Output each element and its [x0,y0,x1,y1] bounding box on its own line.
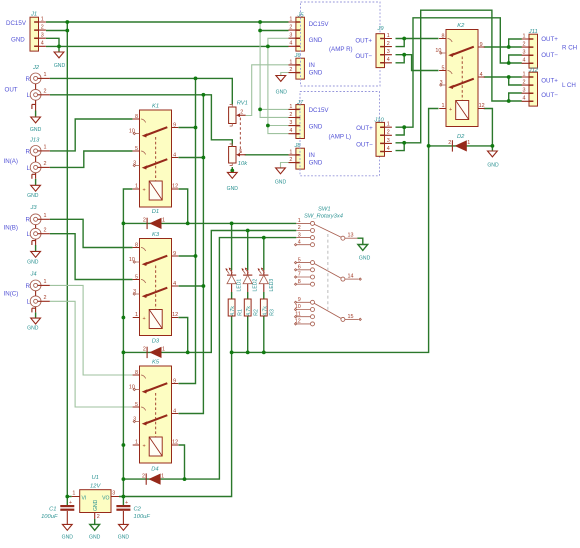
resistor R2 4.7k [244,299,251,316]
node K2.1 D2 junction [427,144,431,148]
connector J4 IN(C) R jack [30,280,50,291]
resistor R1 4.7k [228,299,235,316]
svg-text:12: 12 [295,319,301,325]
svg-text:2: 2 [44,295,47,301]
svg-text:GND: GND [93,499,99,511]
wire U1 pin2 to ground [94,519,96,524]
svg-text:J9: J9 [377,26,385,32]
wire R1 to +12V rail [231,316,233,352]
svg-text:K5: K5 [152,360,160,366]
node J12.1 junction [507,75,511,79]
svg-text:1: 1 [44,72,47,78]
node K3.4 junction [202,284,206,288]
node D1 cathode bus junction [122,222,126,226]
svg-text:SW_Rotary3x4: SW_Rotary3x4 [304,214,343,220]
connector J1 [30,16,46,51]
svg-text:D4: D4 [151,466,158,472]
svg-text:6: 6 [298,265,301,271]
svg-text:GND: GND [227,186,239,192]
wire +15V right vertical to J7.2 [260,22,288,117]
ground GND right of D2 [488,151,498,157]
wire J9 OUT- to K2.5 [396,55,439,71]
ground GND below J1 [54,52,64,58]
connector J4 IN(C) L jack [30,296,50,307]
wire U1 VI from +15V vertical [67,496,71,498]
node OUT R junction [194,77,198,81]
connector J3 IN(B) R jack [30,214,50,225]
relay K2 [435,30,484,127]
wire K3.12 down to D3 row [179,318,188,353]
svg-text:DC15V: DC15V [6,20,27,27]
svg-text:GND: GND [89,534,101,540]
wire LED2 to R2 [247,284,249,292]
svg-text:R3: R3 [270,309,276,316]
SW1 gang dashed link [327,234,329,310]
node LED1 top junction [230,222,234,226]
wire J4 shield to GND [35,312,37,318]
wire C1 top [66,497,68,506]
wire GND top rail J1.4 to J5.4 [46,45,289,47]
svg-text:OUT−: OUT− [355,53,372,60]
ground GND below OUT jacks [31,117,41,123]
regulator U1 12V [72,475,119,520]
svg-text:LED2: LED2 [253,279,259,292]
svg-text:K3: K3 [152,232,160,238]
wire IN(B) R to K3.8 [50,219,133,247]
wire K2.12 down to D2 row [484,109,493,146]
relay K3 [129,239,178,336]
wire J6.2 to GND [281,73,289,76]
diode D3 [143,347,165,359]
LED LED1 [225,268,236,284]
wire J13 shield to GND [35,179,37,185]
node J9.1 junction [402,37,406,41]
svg-text:GND: GND [54,63,66,69]
wire OUT L to RV1 lower section top [50,95,233,147]
svg-text:R: R [26,76,31,83]
svg-text:10: 10 [295,304,301,310]
connector J12 [522,71,538,106]
svg-text:13: 13 [348,233,354,239]
wire K1.9 to R bus [179,127,196,129]
node J7.1 junction [258,108,262,112]
relay K5 [129,366,178,463]
ground GND below J6 [276,76,286,82]
node K3.9 junction [194,254,198,258]
wire LED1 to R1 [231,284,233,292]
svg-text:1: 1 [44,279,47,285]
switch SW1 rotary [294,206,361,326]
svg-text:7: 7 [298,272,301,278]
SW1 common pin 14 [341,277,345,281]
svg-text:8: 8 [298,279,301,285]
svg-text:U1: U1 [91,475,98,481]
potentiometer RV1 lower section 10k [229,144,246,166]
wire LED3 column top [263,238,265,270]
svg-text:OUT−: OUT− [356,142,373,149]
connector J10 [376,122,392,157]
wire J11.1 tie [509,39,522,47]
svg-text:OUT−: OUT− [541,52,558,59]
svg-text:5: 5 [298,257,301,263]
svg-text:GND: GND [62,534,74,540]
wire J9.4 tie [396,55,405,63]
connector J6 [289,58,305,79]
wire IN(A) L to K1.5 [50,151,133,167]
node J11.2 junction [507,45,511,49]
svg-text:OUT+: OUT+ [541,36,558,43]
svg-text:R1: R1 [237,309,243,316]
wire LED2 column top [247,231,249,271]
SW1 common pin 13 [341,236,345,240]
svg-text:GND: GND [276,90,288,96]
potentiometer RV1 upper section [229,104,246,126]
wire R2 to +12V rail [247,316,249,352]
svg-text:GND: GND [487,163,499,169]
svg-text:IN: IN [309,152,315,159]
node D4 cathode bus junction [122,477,126,481]
wire C2 bottom to ground [122,511,124,524]
svg-text:LED3: LED3 [269,279,275,292]
svg-text:(AMP L): (AMP L) [329,134,352,141]
connector J11 [522,33,538,68]
wire D1 row from +12V bus [123,222,187,224]
node R2 rail junction [246,351,250,355]
wire J1.3 to GND rail and ground [46,38,59,52]
svg-text:GND: GND [309,70,323,77]
node LED3 top junction [262,236,266,240]
svg-text:100uF: 100uF [41,514,58,520]
svg-text:VO: VO [102,495,109,501]
wire IN(B) L to K3.5 [50,234,133,280]
SW1 common pin 15 [341,317,345,321]
SECTION: wires [36,10,522,524]
wire rotary common 13 to GND [357,238,363,244]
svg-text:L: L [27,165,31,172]
svg-text:IN(B): IN(B) [4,225,18,232]
node RV1 bottom gnd junction [230,169,234,173]
node R3 rail junction [262,351,266,355]
node J5.2 junction [258,29,262,33]
wire L channel bus to K5.4 [179,95,204,414]
wire IN(A) R to K1.8 [50,119,133,151]
svg-text:R2: R2 [253,309,259,316]
wire net row A to rotary pin 1 [188,222,297,224]
wire K2.4 to J12.1 [484,76,522,78]
SW1 group3 contacts pins 9-12 [296,302,310,324]
node J12.4 junction [507,99,511,103]
wire D4 row and net row C to rotary pin 3 [123,238,296,480]
svg-text:OUT−: OUT− [541,92,558,99]
node U1 VO junction [122,495,126,499]
diode D2 [448,140,470,152]
LED LED2 [242,268,253,284]
LED LED3 [258,268,269,284]
svg-text:GND: GND [309,37,323,44]
SW1 wiper arm 2 [314,263,341,278]
wire J5.2 stub to +15V right vertical [260,30,288,32]
node K1.9 junction [194,126,198,130]
svg-text:OUT+: OUT+ [356,125,373,132]
wire K2.9 to J11.2 [484,46,522,48]
wire J4 shield link [32,291,36,313]
wire IN(C) R to K5.8 [50,285,133,375]
node D1 anode junction [186,222,190,226]
wire J7.3 stub [268,125,289,127]
svg-text:GND: GND [359,255,371,261]
connector J13 IN(A) R jack [30,146,50,157]
svg-text:LED1: LED1 [237,279,243,292]
wire K1.12 to D1 row [179,189,188,223]
node K1.4 junction [202,156,206,160]
node J1.1 junction [65,20,69,24]
wire K1.4 to L bus [179,157,204,159]
svg-text:1: 1 [44,213,47,219]
wire +15V main vertical to U1 VI [66,22,68,497]
wire J10 OUT+ over K2 to J11.4 [396,18,522,127]
wire RV1 gang dashed link [239,118,241,153]
frame dashed AMP L group box [300,92,380,176]
svg-text:D1: D1 [152,209,159,215]
node R1 rail junction [230,351,234,355]
svg-text:K1: K1 [152,103,159,109]
relay K1 [129,110,178,207]
svg-text:J13: J13 [29,138,40,144]
svg-text:1: 1 [298,218,301,224]
svg-text:R: R [26,283,31,290]
svg-text:R: R [26,217,31,224]
svg-text:14: 14 [348,274,354,280]
resistor R3 4.7k [260,299,267,316]
wire LED1 column top [231,223,233,270]
svg-text:1: 1 [72,491,75,497]
node J10.1 junction [402,125,406,129]
node D4 anode junction [183,477,187,481]
ground GND below J13 [31,185,41,191]
svg-text:OUT: OUT [5,86,18,93]
svg-text:10k: 10k [238,161,248,167]
connector J3 IN(B) L jack [30,228,50,239]
svg-text:2: 2 [298,225,301,231]
wire C1 bottom to ground [66,511,68,524]
svg-text:RV1: RV1 [237,100,248,106]
wire LED3 to R3 [263,284,265,292]
wire J1.2 stub to +15V vertical [46,30,67,32]
svg-text:2: 2 [240,109,243,115]
node K5.1 junction [122,443,126,447]
wire J13 shield link [32,156,36,179]
wire K5.12 down to D4 row [179,445,185,479]
wire J12.2 tie [509,77,522,85]
wire D2 row K2 coil to GND [429,146,493,151]
svg-text:IN(A): IN(A) [4,158,18,165]
wire net row B to rotary pin 2 [188,231,297,353]
ground GND below J4 [31,318,41,324]
wire J10.2 tie [396,127,405,135]
wire K3.9 to R bus [179,255,196,257]
svg-text:L: L [27,231,31,238]
svg-text:K2: K2 [457,23,465,29]
connector J5 [289,16,305,51]
connector J9 [376,33,392,68]
svg-text:2: 2 [97,514,100,520]
node J5.1 junction [258,20,262,24]
svg-text:4.7k: 4.7k [230,306,236,316]
svg-text:GND: GND [118,534,130,540]
wire GND right vertical J5.3 to J7.4 [268,38,289,133]
wire IN(C) L to K5.5 [50,301,133,407]
ground GND below C2 [119,524,129,530]
wire R channel bus to K5.9 [179,78,196,383]
connector J7 [289,104,305,139]
connector J2 OUT R jack [30,73,50,84]
svg-text:5: 5 [239,149,242,155]
node J10.3 junction [402,141,406,145]
ground GND below C1 [62,524,72,530]
svg-text:15: 15 [348,314,354,320]
svg-text:L: L [27,299,31,306]
wire K3.4 to L bus [179,285,204,287]
svg-text:R: R [26,148,31,155]
wire J3 shield link [32,225,36,245]
ground GND below RV1 [227,172,237,178]
ground GND below J3 [31,251,41,257]
svg-text:J1: J1 [30,11,37,17]
SW1 group1 contacts pins 1-4 [296,223,310,244]
wire OUT jack shield to GND [35,111,37,117]
svg-text:D2: D2 [457,134,465,140]
node D3 cathode bus junction [122,351,126,355]
svg-text:C1: C1 [49,507,56,513]
svg-text:GND: GND [27,193,39,199]
wire J3 shield to GND [35,245,37,251]
svg-text:4.7k: 4.7k [262,306,268,316]
svg-text:VI: VI [82,495,87,501]
svg-text:L: L [27,92,31,99]
svg-text:OUT+: OUT+ [541,78,558,85]
svg-text:GND: GND [27,260,39,266]
wire U1 VO feed to LED rail [119,352,232,496]
svg-text:J3: J3 [30,205,38,211]
svg-text:4.7k: 4.7k [246,306,252,316]
svg-text:2: 2 [44,161,47,167]
svg-text:GND: GND [11,36,25,43]
node K2.12 D2 junction [491,144,495,148]
capacitor C2 100uF [116,500,130,511]
wire RV1 wiper to J6.1 [246,65,289,116]
ground GND below J8 [276,168,286,174]
node U1 VI junction [65,495,69,499]
wire OUT jack shield link [32,84,36,111]
svg-text:IN: IN [309,62,315,69]
svg-text:D3: D3 [152,339,160,345]
node J9.3 junction [402,53,406,57]
svg-text:GND: GND [309,124,323,131]
svg-text:(AMP R): (AMP R) [329,46,353,53]
SW1 wiper arm 3 [314,303,341,318]
svg-text:J12: J12 [528,67,539,73]
node J11.4 junction [507,61,511,65]
svg-text:2: 2 [44,88,47,94]
SECTION: junctions [57,20,511,498]
svg-text:J10: J10 [373,117,384,123]
svg-text:GND: GND [309,160,323,167]
node J1.2 junction [65,29,69,33]
wire J9.2 tie [396,39,405,47]
wire RV1 lower bottom to GND [231,167,233,172]
wire LED +12V rail to K2.1 [232,109,439,353]
svg-text:3: 3 [298,232,301,238]
SW1 group2 contacts pins 5-8 [296,263,310,285]
node J7.3 junction [266,124,270,128]
svg-text:DC15V: DC15V [309,107,330,114]
svg-text:2: 2 [44,227,47,233]
svg-text:L CH: L CH [562,82,576,89]
wire D3 row from +12V bus [123,351,187,353]
svg-text:100uF: 100uF [134,514,151,520]
wire J7.1 stub [260,108,288,110]
wire J10 OUT- over K2 to J12.4 [396,10,522,143]
svg-text:GND: GND [275,179,287,185]
svg-text:GND: GND [27,325,39,331]
wire J9 OUT+ to K2.8 [396,38,439,40]
ground GND below U1 [90,524,100,530]
wire C2 top [122,497,124,506]
svg-text:3: 3 [112,491,115,497]
svg-text:4: 4 [298,239,301,245]
node OUT L junction [202,93,206,97]
frame dashed AMP R group box [301,2,381,86]
wire J12.3 tie [509,93,522,101]
svg-text:SW1: SW1 [318,206,331,212]
ground GND below SW1 pin 13 [358,245,368,251]
svg-text:12V: 12V [90,484,101,490]
svg-text:J11: J11 [528,29,538,35]
wire J10.4 tie [396,143,405,151]
node D3 anode junction [186,351,190,355]
svg-text:C2: C2 [134,507,142,513]
node J1 gnd junction [57,45,61,49]
node LED2 top junction [246,229,250,233]
wire J11.3 tie [509,55,522,63]
connector J2 OUT L jack [30,89,50,100]
wire R3 to +12V rail [263,316,265,352]
wire J8.2 to GND [281,163,289,168]
svg-text:R CH: R CH [562,45,577,52]
svg-text:1: 1 [44,145,47,151]
svg-text:9: 9 [298,297,301,303]
svg-text:OUT+: OUT+ [355,37,372,44]
svg-text:GND: GND [30,127,42,133]
node K3.1 junction [122,316,126,320]
svg-text:IN(C): IN(C) [4,291,19,298]
diode D4 [142,473,164,485]
wire +15V top rail J1.1 to J5.1 [46,21,289,23]
wire +12V coil bus K1.1 to U1 VO row [123,189,132,497]
wire OUT R to RV1 top [50,78,233,104]
svg-text:DC15V: DC15V [309,21,330,28]
capacitor C1 100uF [60,500,74,511]
wire RV1 lower wiper to J8.1 [245,154,289,156]
connector J13 IN(A) L jack [30,162,50,173]
svg-text:J2: J2 [32,65,40,71]
connector J8 [289,148,305,169]
SW1 wiper arm 1 [314,224,341,237]
svg-text:J4: J4 [30,272,37,278]
node J5.4 junction [266,45,270,49]
diode D1 [143,218,165,230]
